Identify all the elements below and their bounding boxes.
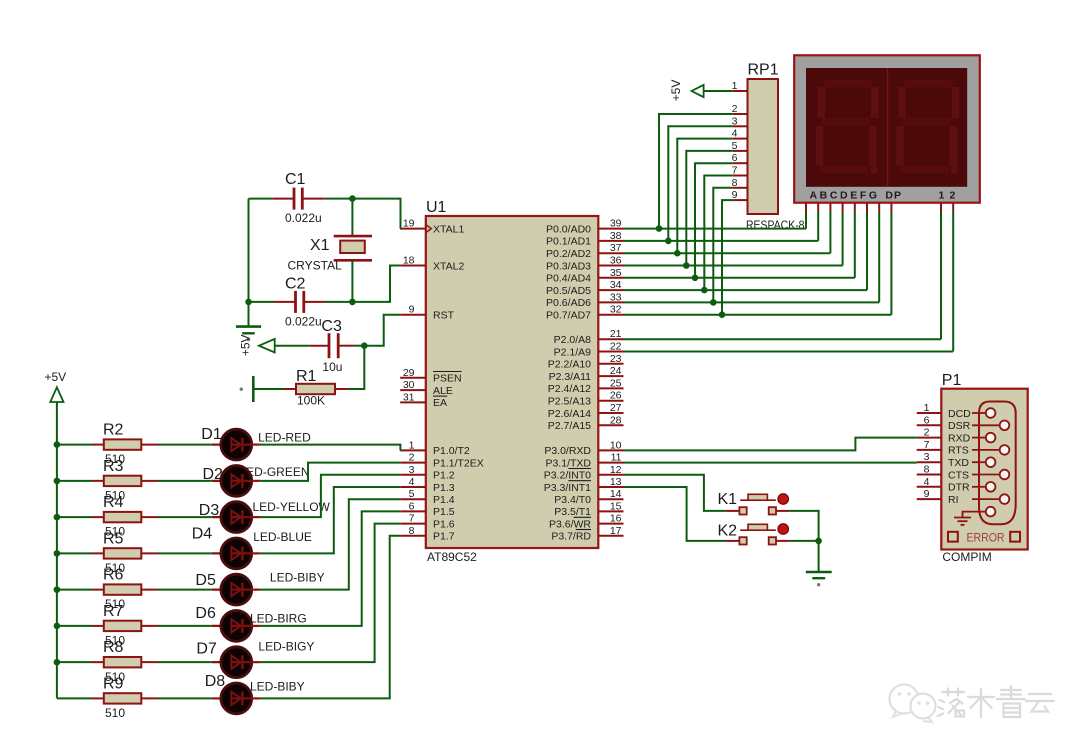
svg-text:RP1: RP1 [748,62,779,79]
svg-text:2: 2 [409,452,415,464]
svg-text:C2: C2 [285,275,306,292]
pin 29 PSEN [400,367,461,385]
svg-text:P2.7/A15: P2.7/A15 [548,420,591,432]
pin 6 P1 DSR [917,414,971,432]
wire rail to R7 [57,625,92,627]
svg-text:AT89C52: AT89C52 [427,550,477,564]
label LED-GREEN [240,465,310,479]
svg-text:P3.3/INT1: P3.3/INT1 [544,482,591,494]
svg-text:RXD: RXD [948,432,971,444]
pin 24 P2.3/A11 [549,365,624,383]
pin 4 RP1 [732,128,748,140]
pin 17 P3.7/RD [551,525,623,543]
power +5V arrow (left rail) [45,370,67,402]
svg-text:35: 35 [610,267,622,279]
display digit 2 [896,80,959,174]
resistor R5 [92,530,158,575]
svg-text:P1.3: P1.3 [433,482,455,494]
pin 9 RP1 [732,189,748,201]
svg-text:CTS: CTS [948,469,969,481]
pin 5 RP1 [732,140,748,152]
pin 36 P0.3/AD3 [546,255,623,273]
pin 33 P0.6/AD6 [546,291,623,309]
wire RP1 pin 6 to P0.4 [692,163,733,281]
watermark logo [890,685,936,723]
pin 9 P1 RI [917,488,959,506]
svg-text:P2.0/A8: P2.0/A8 [554,334,592,346]
svg-text:P1.4: P1.4 [433,494,455,506]
wire rail to R6 [57,589,92,591]
wire RP1 pin 2 to P0.0 [656,114,733,232]
wire D8 to chip pin 8 [260,536,400,699]
wire C1 row [249,198,353,200]
wire D2 to chip pin 2 [260,463,400,481]
pin B display / wire P0.1 bus [624,203,819,241]
svg-text:RTS: RTS [948,445,969,457]
pin F display / wire P0.5 bus [624,203,868,290]
wire D7 to chip pin 7 [260,524,400,663]
svg-text:LED-BLUE: LED-BLUE [253,530,312,544]
svg-text:LED-RED: LED-RED [258,430,311,444]
pin 2 display / wire P2.1 [624,203,954,352]
LED D2 [203,466,260,497]
resistor R6 [92,567,158,612]
label LED-BIGY [258,639,314,653]
pin 30 ALE [400,379,453,397]
svg-text:P3.5/T1: P3.5/T1 [554,506,591,518]
wire P3.0/RXD to P1 RXD [624,438,917,451]
ground (buttons) [806,572,832,586]
svg-text:P3.1/TXD: P3.1/TXD [545,457,591,469]
svg-text:32: 32 [610,304,622,316]
svg-text:23: 23 [610,353,622,365]
svg-text:P0.3/AD3: P0.3/AD3 [546,260,591,272]
svg-text:P2.3/A11: P2.3/A11 [549,371,592,383]
svg-text:XTAL1: XTAL1 [433,223,464,235]
svg-text:21: 21 [610,328,622,340]
svg-text:LED-YELLOW: LED-YELLOW [253,500,331,514]
wire R2 to D1 [158,444,212,446]
pin C display / wire P0.2 bus [624,203,831,254]
wire rail to R5 [57,552,92,554]
pin 21 P2.0/A8 [554,328,624,346]
pin 7 RP1 [732,165,748,177]
svg-text:26: 26 [610,390,622,402]
svg-text:LED-BIRG: LED-BIRG [250,611,307,625]
svg-text:PSEN: PSEN [433,373,462,385]
svg-text:7: 7 [924,439,930,451]
pin 31 EA [400,391,447,409]
svg-text:RI: RI [948,494,959,506]
display segment labels [810,190,956,202]
display digit 1 [816,80,879,174]
pin G display / wire P0.6 bus [624,203,880,303]
svg-text:30: 30 [403,379,415,391]
wire RP1 pin 7 to P0.5 [701,176,733,294]
pin 10 P3.0/RXD [544,439,623,457]
LED D6 [195,605,260,642]
svg-text:P1.7: P1.7 [433,531,455,543]
svg-text:P3.4/T0: P3.4/T0 [554,494,591,506]
svg-text:DSR: DSR [948,420,971,432]
svg-text:P0.4/AD4: P0.4/AD4 [546,273,591,285]
svg-text:16: 16 [610,513,622,525]
wire R6 to D5 [158,589,212,591]
svg-text:+5V: +5V [45,370,67,384]
resistor R2 [92,422,158,467]
svg-text:D2: D2 [203,466,224,483]
svg-text:K1: K1 [718,491,738,508]
pin 7 P1 RTS [917,439,969,457]
wire R1 to C3 junction [349,346,365,389]
svg-text:D1: D1 [201,426,222,443]
LED D5 [195,572,260,605]
pin 15 P3.5/T1 [554,500,623,518]
svg-text:28: 28 [610,414,622,426]
wire RP1 pin 5 to P0.3 [683,151,733,269]
label LED-BIRG [250,611,307,625]
ground (R1 left, rotated) [240,376,285,402]
svg-text:P0.7/AD7: P0.7/AD7 [546,310,591,322]
svg-text:P2.5/A13: P2.5/A13 [548,396,591,408]
svg-text:29: 29 [403,367,415,379]
pin 16 P3.6/WR [549,513,624,531]
button K1 [718,491,790,515]
pin 34 P0.5/AD5 [546,279,623,297]
pin 14 P3.4/T0 [554,488,623,506]
svg-text:CRYSTAL: CRYSTAL [288,259,343,273]
wire RP1 pin 4 to P0.2 [674,139,733,257]
svg-text:0.022u: 0.022u [285,315,322,329]
resistor R8 [92,639,158,684]
svg-text:P2.1/A9: P2.1/A9 [554,346,592,358]
LED D4 [192,526,260,569]
svg-text:13: 13 [610,476,622,488]
svg-text:6: 6 [924,414,930,426]
label LED-BIBY [270,570,325,584]
svg-text:P3.6/WR: P3.6/WR [549,518,591,530]
svg-text:36: 36 [610,255,622,267]
svg-text:P0.5/AD5: P0.5/AD5 [546,285,591,297]
pin 32 P0.7/AD7 [546,304,623,322]
svg-text:24: 24 [610,365,622,377]
wire D5 to chip pin 5 [260,499,400,589]
svg-text:100K: 100K [297,394,325,408]
svg-text:8: 8 [409,525,415,537]
resistor R3 [92,458,158,503]
svg-text:LED-BIBY: LED-BIBY [250,680,305,694]
svg-text:D8: D8 [205,673,226,690]
resistor R4 [92,494,158,539]
svg-text:4: 4 [924,476,930,488]
svg-text:3: 3 [409,464,415,476]
capacitor C2 [274,275,326,328]
svg-text:+5V: +5V [669,80,683,102]
capacitor C3 [310,318,355,374]
pin 12 P3.2/INT0 [544,464,624,482]
svg-text:2: 2 [950,190,956,202]
svg-text:K2: K2 [718,523,738,540]
pin 2 RP1 [732,103,748,115]
svg-text:39: 39 [610,218,622,230]
pin 1 RP1 [732,80,748,92]
LED D3 [199,502,260,533]
svg-text:R1: R1 [296,368,317,385]
wire R9 to D8 [158,697,212,699]
pin 23 P2.2/A10 [548,353,624,371]
chip U1 body [426,199,599,564]
svg-text:3: 3 [924,451,930,463]
ground (osc rail) [236,327,261,342]
svg-text:P2.2/A10: P2.2/A10 [548,359,591,371]
svg-text:EA: EA [433,397,447,409]
resistor R7 [92,603,158,648]
pin 25 P2.4/A12 [548,377,624,395]
svg-text:1: 1 [924,402,930,414]
wire +5V left rail [54,402,61,698]
svg-text:ABCDEFG: ABCDEFG [810,190,880,202]
svg-text:8: 8 [924,464,930,476]
pin 4 P1 DTR [917,476,970,494]
label LED-YELLOW [253,500,331,514]
pin H display / wire P0.7 bus [624,203,892,315]
svg-text:P2.4/A12: P2.4/A12 [548,383,591,395]
wire RP1 pin 9 to P0.7 [719,200,733,318]
pin 6 P1.5 [400,500,455,518]
wire rail to R3 [57,480,92,482]
pin 35 P0.4/AD4 [546,267,623,285]
pin 11 P3.1/TXD [545,452,623,470]
svg-text:R6: R6 [103,567,124,584]
svg-text:R3: R3 [103,458,124,475]
wire P3.1/TXD to P1 TXD [624,462,917,464]
svg-text:P0.1/AD1: P0.1/AD1 [546,236,591,248]
wire P3.3/INT1 to K2 [624,487,726,541]
label LED-RED [258,430,311,444]
wire rail to R8 [57,661,92,663]
wire RP1 pin 3 to P0.1 [665,126,733,244]
svg-text:10: 10 [610,439,622,451]
svg-text:DP: DP [885,190,902,202]
pin 8 RP1 [732,177,748,189]
svg-text:D5: D5 [195,572,216,589]
svg-text:D4: D4 [192,526,213,543]
pin 5 P1.4 [400,488,455,506]
svg-text:P0.6/AD6: P0.6/AD6 [546,297,591,309]
svg-text:37: 37 [610,242,622,254]
connector P1 COMPIM body [941,372,1027,564]
svg-text:TXD: TXD [948,457,969,469]
wire left osc rail [248,199,250,326]
svg-text:U1: U1 [426,199,447,216]
svg-text:0.022u: 0.022u [285,211,322,225]
pin 6 RP1 [732,152,748,164]
wire R7 to D6 [158,625,212,627]
svg-text:34: 34 [610,279,622,291]
LED D1 [201,426,260,460]
pin 1 display / wire P2.0 [624,203,942,340]
svg-text:R4: R4 [103,494,124,511]
svg-text:R5: R5 [103,530,124,547]
svg-text:C1: C1 [285,171,306,188]
svg-text:14: 14 [610,488,622,500]
LED D8 [205,673,260,714]
resistor R9 [92,675,158,720]
svg-text:22: 22 [610,341,622,353]
svg-text:510: 510 [105,706,125,720]
svg-text:27: 27 [610,402,622,414]
svg-text:6: 6 [409,500,415,512]
svg-text:1: 1 [939,190,945,202]
capacitor C1 [273,171,325,225]
svg-text:2: 2 [924,427,930,439]
svg-text:X1: X1 [310,237,330,254]
svg-text:7: 7 [409,513,415,525]
pin 4 P1.3 [400,476,455,494]
svg-text:ERROR: ERROR [967,531,1005,545]
svg-text:R2: R2 [103,422,124,439]
P1 error indicators [948,531,1020,545]
pin 3 P1 TXD [917,451,970,469]
pin 8 P1 CTS [917,464,969,482]
svg-text:5: 5 [409,488,415,500]
svg-text:DCD: DCD [948,408,971,420]
svg-text:P1.5: P1.5 [433,506,455,518]
svg-text:DTR: DTR [948,482,970,494]
svg-text:COMPIM: COMPIM [942,550,991,564]
pin 3 P1.2 [400,464,455,482]
wire D3 to chip pin 3 [260,475,400,517]
svg-text:P1: P1 [942,372,962,389]
pin 26 P2.5/A13 [548,390,624,408]
wire D4 to chip pin 4 [260,487,400,553]
svg-text:XTAL2: XTAL2 [433,260,464,272]
svg-text:P3.2/INT0: P3.2/INT0 [544,470,591,482]
pin 3 RP1 [732,115,748,127]
svg-text:R7: R7 [103,603,124,620]
svg-text:P3.7/RD: P3.7/RD [551,531,591,543]
pin 8 P1.7 [400,525,455,543]
wire D1 to chip pin 1 [260,445,401,451]
pin 37 P0.2/AD2 [546,242,623,260]
wire buttons to ground [789,511,821,571]
svg-text:10u: 10u [322,360,342,374]
svg-text:25: 25 [610,377,622,389]
pin 7 P1.6 [400,513,455,531]
svg-text:18: 18 [403,255,415,267]
pin 13 P3.3/INT1 [544,476,624,494]
svg-text:R9: R9 [103,675,124,692]
pin E display / wire P0.4 bus [624,203,855,278]
resistor pack RP1 [746,62,805,232]
pin D display / wire P0.3 bus [624,203,843,266]
pin 27 P2.6/A14 [548,402,624,420]
wire rail to R4 [57,516,92,518]
svg-text:11: 11 [611,452,622,464]
svg-text:P1.0/T2: P1.0/T2 [433,445,470,457]
wire R8 to D7 [158,661,212,663]
svg-text:15: 15 [610,500,622,512]
svg-text:4: 4 [409,476,415,488]
svg-text:RST: RST [433,310,455,322]
pin 22 P2.1/A9 [554,341,624,359]
P1 internal ground [954,512,986,525]
pin 1 P1.0/T2 [400,439,470,457]
svg-text:9: 9 [924,488,930,500]
pin 39 P0.0/AD0 [546,218,623,236]
svg-text:12: 12 [610,464,622,476]
svg-text:P1.2: P1.2 [433,470,455,482]
svg-text:ALE: ALE [433,385,453,397]
pin 9 RST [400,304,454,322]
pin 1 P1 DCD [917,402,971,420]
wire R5 to D4 [158,552,212,554]
svg-text:17: 17 [610,525,622,537]
pin 18 XTAL2 [400,255,464,273]
wire D6 to chip pin 6 [260,511,400,626]
wire R4 to D3 [158,516,212,518]
svg-text:1: 1 [409,439,415,451]
pin 2 P1 RXD [917,427,971,445]
svg-text:D3: D3 [199,502,220,519]
svg-text:P0.0/AD0: P0.0/AD0 [546,223,591,235]
wire P3.2/INT0 to K1 [624,475,726,511]
svg-text:P1.6: P1.6 [433,518,455,530]
wire C3 row / RST net [275,315,401,349]
watermark text [938,686,1055,717]
svg-text:D6: D6 [195,605,216,622]
svg-text:R8: R8 [103,639,124,656]
svg-text:C3: C3 [321,318,342,335]
wire XTAL1 net [349,195,400,228]
wire R3 to D2 [158,480,212,482]
pin 38 P0.1/AD1 [546,230,623,248]
pin 19 XTAL1 [400,218,464,236]
resistor R1 [285,368,349,408]
svg-text:RESPACK-8: RESPACK-8 [746,218,805,232]
svg-text:31: 31 [403,391,415,403]
LED D7 [196,640,260,677]
button K2 [718,523,790,545]
label LED-BLUE [253,530,312,544]
pin 2 P1.1/T2EX [400,452,484,470]
svg-text:P1.1/T2EX: P1.1/T2EX [433,457,484,469]
svg-text:P2.6/A14: P2.6/A14 [548,408,591,420]
display RESPACK (7SEG-MPX2) frame [794,55,980,202]
svg-text:38: 38 [610,230,622,242]
power +5V arrow (C3) [239,334,275,356]
wire RP1 pin 8 to P0.6 [710,188,733,306]
label LED-BIBY [250,680,305,694]
pin A display / wire P0.0 bus [624,203,807,229]
svg-text:+5V: +5V [239,334,253,356]
svg-text:19: 19 [403,218,415,230]
svg-text:P3.0/RXD: P3.0/RXD [544,445,591,457]
svg-text:9: 9 [409,304,415,316]
svg-text:33: 33 [610,291,622,303]
svg-text:D7: D7 [196,640,217,657]
wire rail to R2 [57,444,92,446]
wire rail to R9 [57,697,92,699]
pin 28 P2.7/A15 [548,414,624,432]
power +5V arrow (RP1) [669,80,733,102]
wire XTAL2 net [352,266,400,302]
wire C2 row [245,299,356,306]
P1 DB9 shape [972,402,1016,525]
svg-text:P0.2/AD2: P0.2/AD2 [546,248,591,260]
svg-text:LED-BIBY: LED-BIBY [270,570,325,584]
svg-text:LED-BIGY: LED-BIGY [258,639,314,653]
